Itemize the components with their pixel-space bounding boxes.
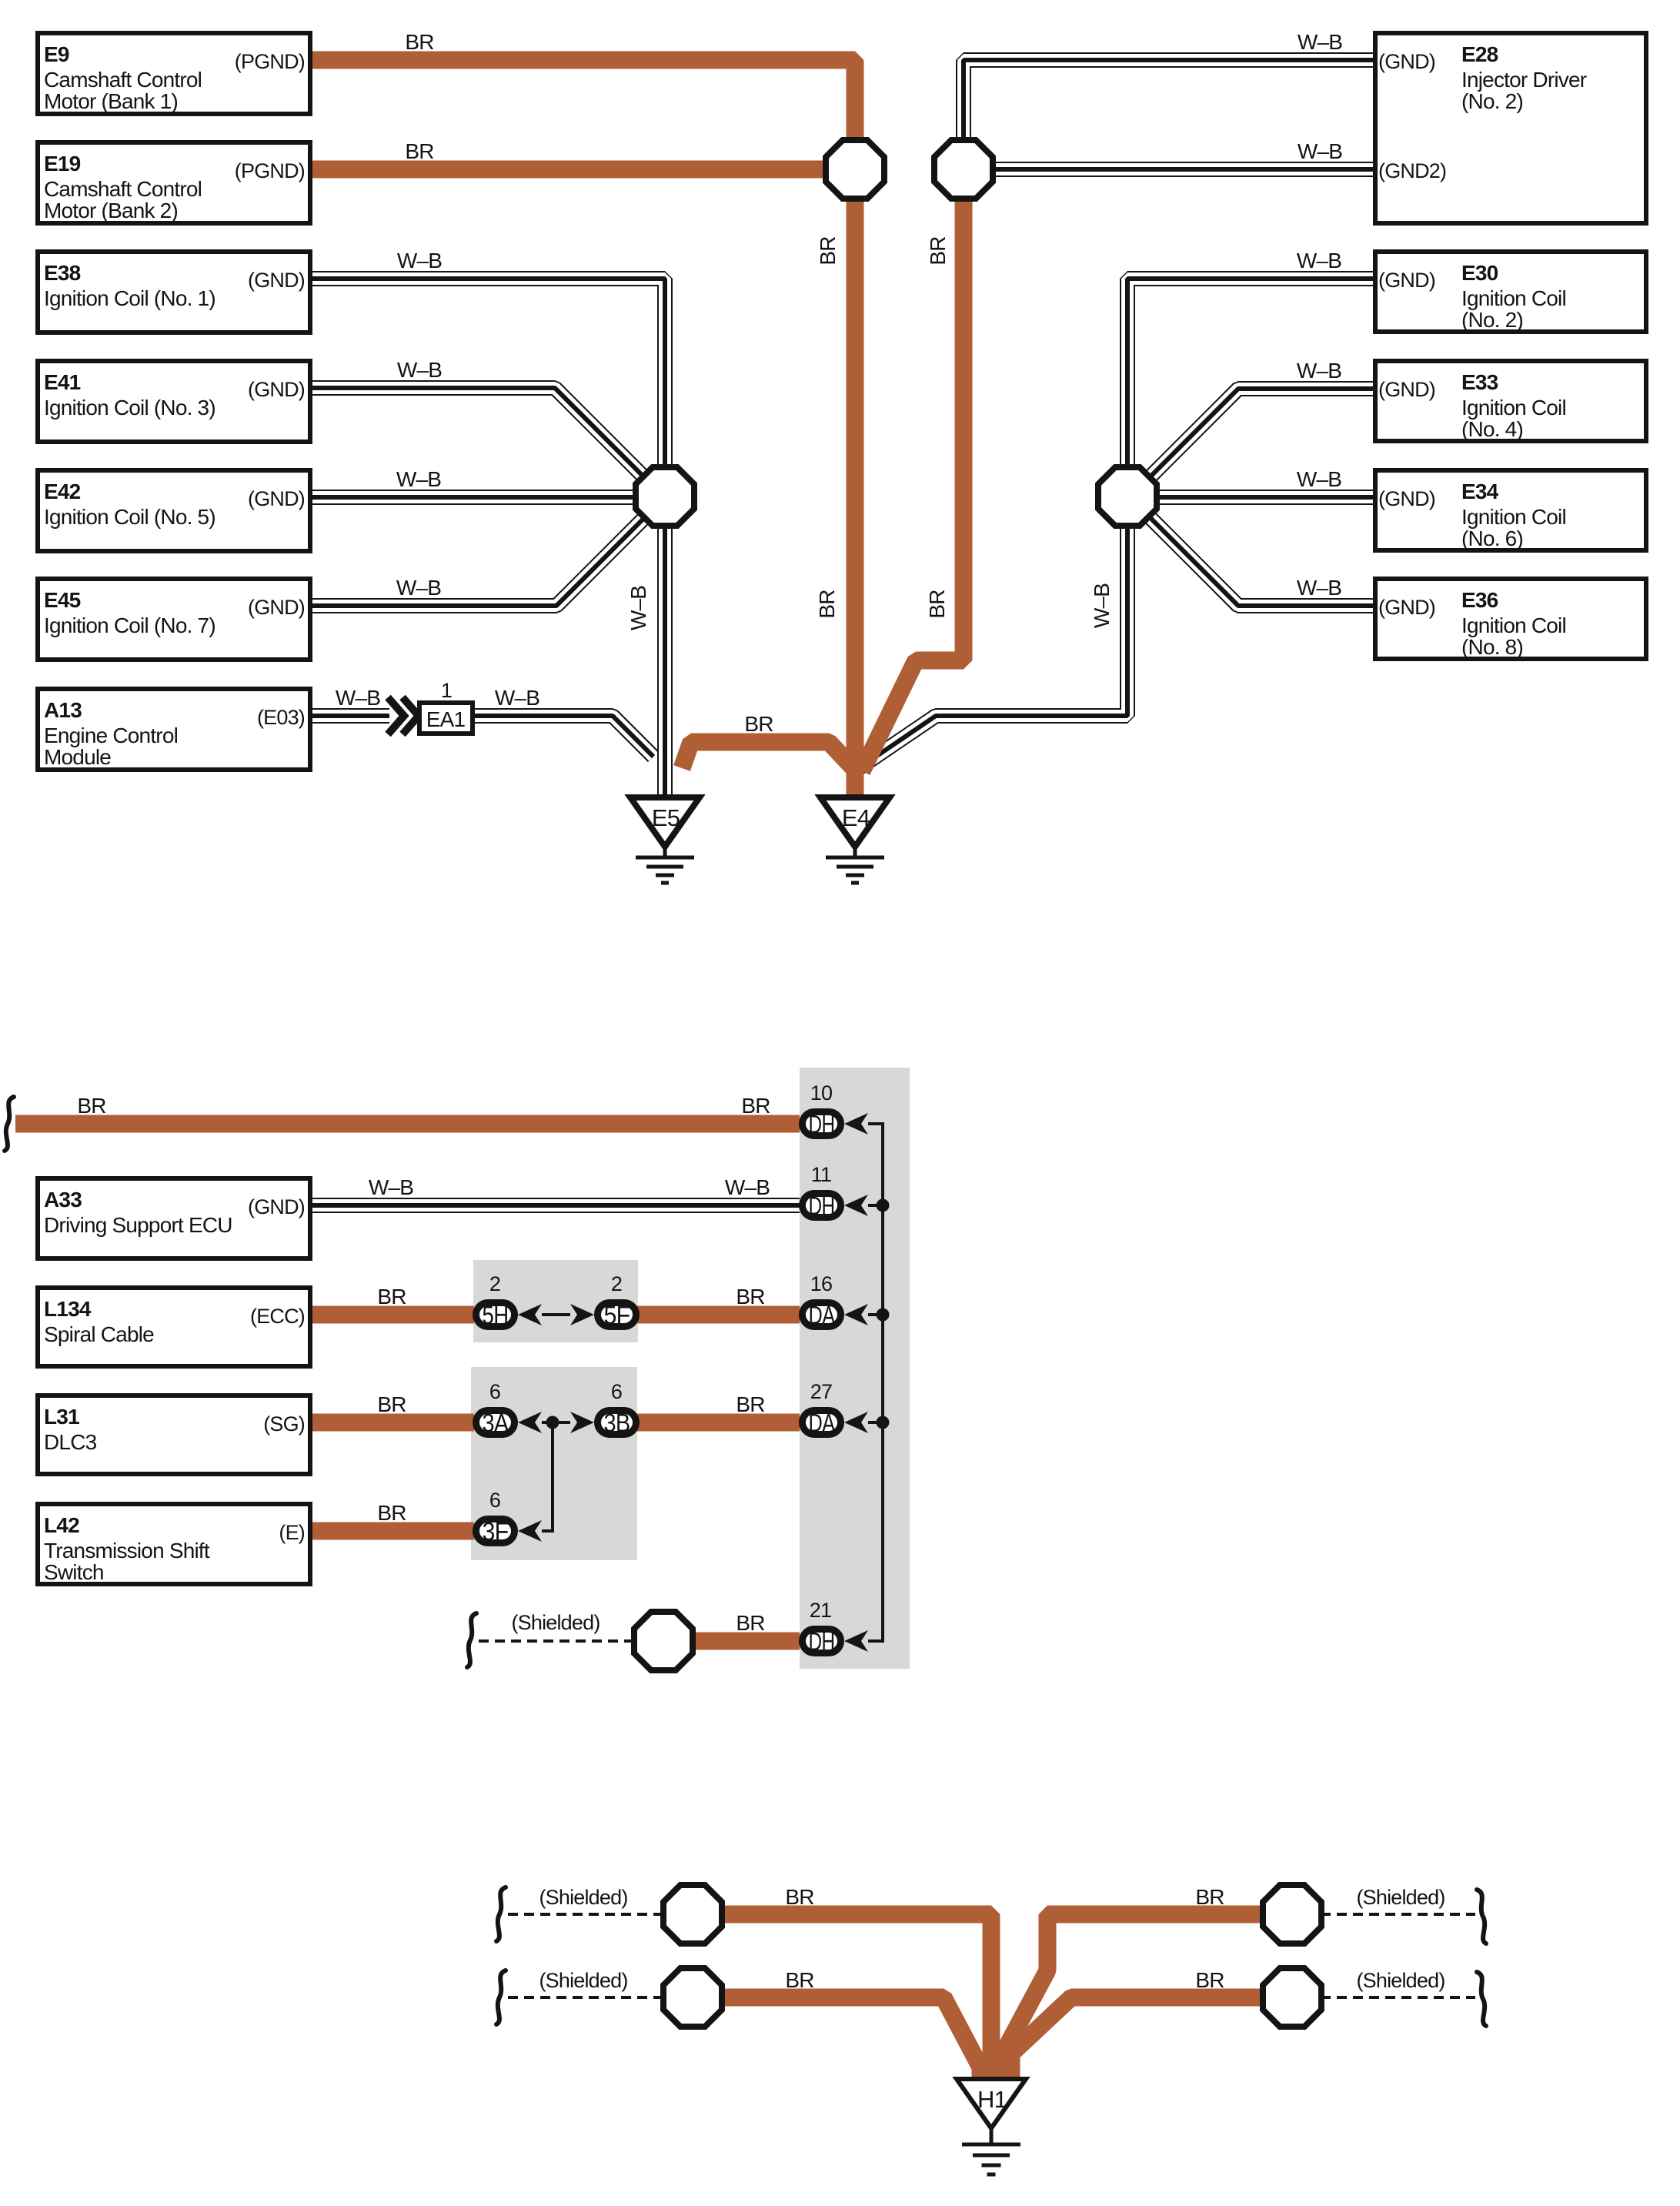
wire BR continuation to DH 10: [15, 1115, 800, 1133]
svg-text:L42: L42: [44, 1513, 79, 1537]
svg-text:3A: 3A: [483, 1409, 509, 1437]
junction dot 3A-3B: [546, 1416, 559, 1429]
junction dot DA27: [877, 1416, 890, 1429]
wire BR shield A-right to H1: [1001, 1914, 1263, 2083]
ground E4: [820, 797, 890, 883]
svg-text:BR: BR: [925, 590, 949, 618]
component box E9: [38, 33, 310, 114]
wire BR L31 to 3A: [312, 1414, 474, 1432]
svg-text:(GND): (GND): [1378, 378, 1435, 401]
ground E5: [630, 797, 700, 883]
link 5H to 5F: [542, 1313, 570, 1316]
junction connector octagon shield junction B-left: [663, 1968, 722, 2027]
svg-text:Ignition Coil (No. 3): Ignition Coil (No. 3): [44, 396, 215, 419]
wire W-B E38 to junction: [309, 279, 665, 471]
svg-text:Spiral Cable: Spiral Cable: [44, 1322, 154, 1346]
wire W-B E33 to junction: [1145, 389, 1376, 482]
svg-text:2: 2: [611, 1272, 622, 1295]
shielded dashed wire B-right: [1321, 1996, 1475, 1999]
svg-text:3B: 3B: [604, 1409, 630, 1437]
svg-text:Engine Control: Engine Control: [44, 724, 178, 747]
svg-text:(No. 8): (No. 8): [1461, 635, 1523, 659]
component box L42: [38, 1504, 310, 1584]
svg-text:W–B: W–B: [626, 586, 650, 630]
svg-text:11: 11: [811, 1163, 831, 1186]
junction connector octagon shield junction row 21: [634, 1612, 693, 1670]
junction connector octagon shield junction B-right: [1263, 1968, 1321, 2027]
wire BR 3B to DA 27: [637, 1414, 800, 1432]
svg-text:EA1: EA1: [426, 707, 466, 731]
wire W-B junction to ground E4: [854, 523, 1127, 771]
wire W-B E45 to junction: [309, 514, 648, 606]
svg-text:(GND): (GND): [1378, 596, 1435, 619]
svg-text:(No. 6): (No. 6): [1461, 526, 1523, 550]
svg-text:BR: BR: [1195, 1968, 1224, 1992]
shielded dashed wire A-right: [1321, 1913, 1475, 1916]
shielded dashed wire B-left: [508, 1996, 664, 1999]
svg-text:W–B: W–B: [495, 686, 539, 710]
continuation curl row 21: [467, 1613, 476, 1667]
svg-text:(GND): (GND): [1378, 487, 1435, 510]
svg-text:DA: DA: [809, 1409, 836, 1437]
svg-text:(E): (E): [279, 1521, 305, 1544]
svg-text:Motor (Bank 1): Motor (Bank 1): [44, 89, 178, 113]
connector oval 5H: [476, 1301, 515, 1329]
svg-text:Ignition Coil: Ignition Coil: [1461, 505, 1566, 529]
continuation curl A-right: [1477, 1890, 1486, 1944]
svg-text:E41: E41: [44, 370, 81, 394]
svg-text:27: 27: [810, 1380, 832, 1403]
svg-text:E34: E34: [1461, 480, 1499, 503]
svg-text:E28: E28: [1461, 42, 1498, 66]
connector oval DH pin 21: [803, 1627, 841, 1656]
wire BR branch to ground E4: [682, 742, 853, 768]
wire BR E9 to junction: [312, 60, 855, 143]
link stub DA16: [868, 1313, 883, 1316]
svg-text:A13: A13: [44, 698, 82, 722]
link stub DH11: [868, 1204, 883, 1207]
svg-text:BR: BR: [741, 1094, 770, 1118]
arrow into DH10: [844, 1113, 868, 1135]
arrow into DH11: [844, 1195, 868, 1216]
wire W-B E42 to junction: [309, 490, 639, 505]
svg-text:W–B: W–B: [369, 1175, 413, 1199]
svg-text:BR: BR: [377, 1501, 406, 1525]
svg-text:(No. 4): (No. 4): [1461, 417, 1523, 441]
svg-text:Ignition Coil: Ignition Coil: [1461, 613, 1566, 637]
component box E41: [38, 361, 310, 442]
svg-text:L31: L31: [44, 1405, 79, 1429]
svg-text:(GND): (GND): [248, 1195, 305, 1218]
svg-text:BR: BR: [926, 236, 950, 265]
svg-text:E36: E36: [1461, 588, 1498, 612]
svg-text:DH: DH: [809, 1627, 835, 1656]
svg-text:BR: BR: [405, 139, 433, 163]
svg-text:BR: BR: [785, 1885, 813, 1909]
junction connector octagon W-B junction right: [1098, 467, 1157, 526]
wire W-B E28 GND to splice: [964, 60, 1376, 143]
svg-text:DA: DA: [809, 1301, 836, 1329]
link line DH10 to DH21: [868, 1124, 883, 1641]
svg-text:E42: E42: [44, 480, 81, 503]
component box E34: [1375, 470, 1646, 550]
svg-text:Ignition Coil: Ignition Coil: [1461, 286, 1566, 310]
svg-text:10: 10: [810, 1081, 832, 1105]
svg-text:(Shielded): (Shielded): [511, 1611, 600, 1634]
svg-text:(GND): (GND): [1378, 269, 1435, 292]
wire W-B E28 GND2 to splice: [991, 162, 1376, 177]
svg-text:(GND): (GND): [248, 269, 305, 292]
shielded dashed wire A-left: [508, 1913, 664, 1916]
svg-text:3F: 3F: [483, 1517, 509, 1546]
svg-text:BR: BR: [744, 712, 773, 736]
svg-text:Ignition Coil: Ignition Coil: [1461, 396, 1566, 419]
connector oval 3B: [598, 1409, 636, 1437]
connector oval DH pin 11: [803, 1192, 841, 1220]
wire BR shield A-left to H1: [721, 1914, 991, 2083]
gray connector block 5H/5F: [473, 1260, 638, 1342]
arrow into DA27: [844, 1412, 868, 1433]
wire BR junction down to ground E4: [847, 196, 864, 796]
arrow into 3B: [570, 1412, 594, 1433]
component box E28: [1375, 33, 1646, 223]
svg-text:(GND): (GND): [1378, 50, 1435, 73]
gray connector band DH/DA: [800, 1068, 910, 1669]
junction dot DH11: [877, 1199, 890, 1212]
svg-text:(Shielded): (Shielded): [539, 1886, 627, 1909]
continuation curl B-left: [496, 1970, 506, 2024]
component box L134: [38, 1288, 310, 1366]
svg-text:BR: BR: [736, 1611, 764, 1635]
svg-text:E5: E5: [652, 804, 680, 831]
component box L31: [38, 1395, 310, 1474]
svg-text:A33: A33: [44, 1188, 82, 1212]
svg-text:Ignition Coil (No. 5): Ignition Coil (No. 5): [44, 505, 215, 529]
continuation curl row10: [5, 1097, 14, 1151]
wire BR shield B-left to H1: [721, 1997, 980, 2083]
component box E38: [38, 252, 310, 333]
wire W-B EA1 to E5: [475, 716, 653, 757]
svg-text:W–B: W–B: [397, 249, 442, 272]
svg-text:2: 2: [489, 1272, 500, 1295]
svg-text:5F: 5F: [604, 1301, 630, 1329]
svg-text:(GND): (GND): [248, 596, 305, 619]
wire W-B E30 to junction: [1127, 279, 1376, 471]
svg-text:21: 21: [810, 1599, 831, 1622]
inline connector EA1 with pin 1: [388, 679, 473, 734]
svg-text:W–B: W–B: [1090, 583, 1114, 628]
svg-text:(Shielded): (Shielded): [1356, 1886, 1445, 1909]
component box E42: [38, 470, 310, 551]
svg-text:(GND2): (GND2): [1378, 159, 1446, 182]
svg-text:(GND): (GND): [248, 378, 305, 401]
svg-text:Transmission Shift: Transmission Shift: [44, 1539, 210, 1563]
wire W-B E34 to junction: [1154, 490, 1376, 505]
svg-text:6: 6: [489, 1380, 500, 1403]
wire BR shield junction to DH 21: [690, 1633, 800, 1650]
svg-text:E19: E19: [44, 152, 81, 175]
svg-text:Module: Module: [44, 745, 111, 769]
arrow into DA16: [844, 1304, 868, 1325]
continuation curl B-right: [1477, 1972, 1486, 2026]
component box A13: [38, 689, 310, 770]
wire W-B E36 to junction: [1145, 513, 1376, 606]
svg-text:W–B: W–B: [336, 686, 380, 710]
svg-text:DLC3: DLC3: [44, 1430, 97, 1454]
wire BR E19 to junction: [312, 161, 828, 179]
svg-text:(No. 2): (No. 2): [1461, 308, 1523, 332]
wire BR splice down to ground E4: [862, 196, 964, 771]
svg-text:W–B: W–B: [1298, 30, 1342, 54]
wire W-B junction to ground E5: [657, 523, 673, 796]
svg-text:W–B: W–B: [1297, 467, 1341, 491]
svg-text:6: 6: [489, 1489, 500, 1512]
connector oval 3F: [476, 1517, 515, 1546]
wire BR L42 to 3F: [312, 1522, 474, 1540]
svg-text:BR: BR: [736, 1392, 764, 1416]
shielded dashed wire row 21: [479, 1639, 636, 1643]
svg-text:Injector Driver: Injector Driver: [1461, 68, 1587, 92]
svg-text:H1: H1: [977, 2086, 1007, 2113]
svg-text:(Shielded): (Shielded): [1356, 1969, 1445, 1992]
svg-text:BR: BR: [405, 30, 433, 54]
svg-text:Motor (Bank 2): Motor (Bank 2): [44, 199, 178, 222]
svg-text:Ignition Coil (No. 7): Ignition Coil (No. 7): [44, 613, 215, 637]
svg-text:BR: BR: [377, 1392, 406, 1416]
svg-text:Camshaft Control: Camshaft Control: [44, 68, 202, 92]
svg-text:(PGND): (PGND): [235, 159, 305, 182]
component box E36: [1375, 579, 1646, 659]
svg-text:Switch: Switch: [44, 1560, 104, 1584]
svg-text:(No. 2): (No. 2): [1461, 89, 1523, 113]
wire W-B A33 to DH 11: [309, 1198, 800, 1213]
connector oval DA pin 27: [803, 1409, 841, 1437]
connector oval DH pin 10: [803, 1110, 841, 1138]
svg-text:BR: BR: [77, 1094, 105, 1118]
svg-text:W–B: W–B: [396, 576, 441, 600]
component box E30: [1375, 252, 1646, 332]
svg-text:(GND): (GND): [248, 487, 305, 510]
component box E45: [38, 579, 310, 660]
wire W-B A13 to EA1: [309, 708, 389, 724]
svg-text:(Shielded): (Shielded): [539, 1969, 627, 1992]
svg-text:W–B: W–B: [725, 1175, 770, 1199]
svg-text:BR: BR: [736, 1285, 764, 1309]
svg-text:(SG): (SG): [263, 1412, 305, 1436]
junction connector octagon W-B junction left: [636, 467, 694, 526]
svg-text:E9: E9: [44, 42, 69, 66]
component box E33: [1375, 361, 1646, 441]
svg-text:(PGND): (PGND): [235, 50, 305, 73]
arrow into 5H: [518, 1304, 542, 1325]
arrow into 5F: [570, 1304, 594, 1325]
connector oval 5F: [598, 1301, 636, 1329]
svg-text:BR: BR: [816, 236, 840, 265]
junction connector octagon W-B/BR splice right: [934, 140, 993, 199]
arrow into 3A: [518, 1412, 542, 1433]
wire BR 5F to DA 16: [637, 1306, 800, 1324]
component box A33: [38, 1178, 310, 1258]
junction connector octagon BR junction left: [826, 140, 884, 199]
link 3A to 3B and down to 3F: [542, 1422, 570, 1531]
arrow into 3F: [518, 1520, 542, 1542]
svg-text:E4: E4: [842, 804, 870, 831]
svg-text:Driving Support ECU: Driving Support ECU: [44, 1213, 232, 1237]
svg-text:BR: BR: [377, 1285, 406, 1309]
svg-text:E33: E33: [1461, 370, 1498, 394]
connector oval 3A: [476, 1409, 515, 1437]
svg-text:5H: 5H: [483, 1301, 509, 1329]
svg-text:W–B: W–B: [1297, 359, 1341, 383]
continuation curl A-left: [496, 1887, 506, 1941]
svg-text:E45: E45: [44, 588, 81, 612]
svg-text:(ECC): (ECC): [250, 1305, 305, 1328]
svg-text:E38: E38: [44, 261, 81, 285]
svg-text:6: 6: [611, 1380, 622, 1403]
junction connector octagon shield junction A-right: [1263, 1885, 1321, 1944]
wire BR shield B-right to H1: [1011, 1997, 1263, 2083]
svg-text:BR: BR: [815, 590, 839, 618]
svg-text:DH: DH: [809, 1192, 835, 1220]
arrow into DH21: [844, 1630, 868, 1652]
svg-text:W–B: W–B: [1298, 139, 1342, 163]
wire W-B E41 to junction: [309, 388, 648, 481]
svg-text:16: 16: [810, 1272, 832, 1295]
svg-text:Camshaft Control: Camshaft Control: [44, 177, 202, 201]
svg-text:DH: DH: [809, 1110, 835, 1138]
svg-text:L134: L134: [44, 1297, 92, 1321]
svg-text:Ignition Coil (No. 1): Ignition Coil (No. 1): [44, 286, 215, 310]
svg-text:W–B: W–B: [397, 358, 442, 382]
svg-text:W–B: W–B: [1297, 249, 1341, 272]
gray connector block 3A/3B/3F: [471, 1367, 637, 1560]
svg-text:BR: BR: [1195, 1885, 1224, 1909]
ground H1: [957, 2079, 1026, 2174]
svg-text:W–B: W–B: [1297, 576, 1341, 600]
svg-text:E30: E30: [1461, 261, 1498, 285]
svg-text:(E03): (E03): [257, 706, 305, 729]
link stub DA27: [868, 1421, 883, 1424]
junction dot DA16: [877, 1309, 890, 1322]
svg-text:1: 1: [441, 679, 452, 702]
wire BR L134 to 5H: [312, 1306, 474, 1324]
svg-text:W–B: W–B: [396, 467, 441, 491]
connector oval DA pin 16: [803, 1301, 841, 1329]
svg-text:BR: BR: [785, 1968, 813, 1992]
junction connector octagon shield junction A-left: [663, 1885, 722, 1944]
component box E19: [38, 142, 310, 223]
